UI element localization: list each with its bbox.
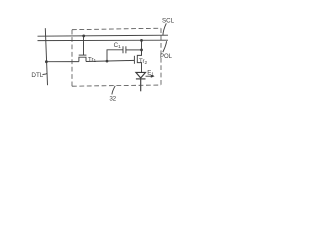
capacitor C1 plates: [122, 46, 124, 53]
leader SCL: [163, 23, 166, 35]
junction dot power feed on POL: [140, 39, 143, 42]
pixel box 32 top edge: [72, 28, 161, 30]
pixel box 32 bottom edge: [72, 85, 161, 86]
transistor Tr1 gate bar: [79, 54, 87, 56]
junction dot DTL to Tr1 wire: [45, 60, 48, 63]
junction dot C1 drop on wire: [106, 60, 109, 63]
svg-text:SCL: SCL: [162, 18, 175, 25]
leader POL: [163, 41, 167, 52]
arrow E1 emission: [146, 75, 152, 77]
diode E1 triangle: [136, 72, 146, 78]
svg-text:DTL: DTL: [31, 72, 43, 79]
wire Tr1 gate lead to SCL: [83, 36, 85, 55]
wire power feed from POL down: [141, 40, 143, 55]
pixel box 32 left edge: [71, 30, 73, 86]
wire E1 bottom lead: [140, 79, 142, 91]
wire data line DTL vertical: [45, 28, 47, 85]
svg-text:Tr1: Tr1: [88, 57, 96, 63]
junction dot C1 right lead on power feed: [140, 49, 143, 52]
wire C1 right lead: [126, 49, 142, 51]
transistor Tr2 gate bar: [133, 56, 135, 64]
wire power line POL (line B): [38, 39, 169, 41]
transistor Tr2 channel: [137, 50, 141, 73]
svg-text:C1: C1: [114, 42, 121, 50]
transistor Tr1 channel: [79, 57, 86, 61]
wire Tr1 drain to Tr2 gate: [86, 60, 134, 61]
svg-text:E1: E1: [147, 70, 154, 78]
leader DTL: [43, 73, 48, 75]
leader 32: [112, 86, 115, 95]
diode E1 cathode bar: [136, 78, 146, 80]
pixel box 32 right edge: [160, 28, 162, 85]
svg-text:Tr2: Tr2: [139, 59, 147, 65]
svg-text:32: 32: [109, 96, 116, 103]
wire C1 left lead drop: [107, 50, 123, 61]
junction dot Tr1 gate on SCL: [82, 35, 85, 38]
svg-text:POL: POL: [160, 54, 173, 60]
wire Tr1 source wire from DTL to Tr1: [46, 61, 79, 63]
wire scan line SCL (line A): [38, 35, 169, 36]
